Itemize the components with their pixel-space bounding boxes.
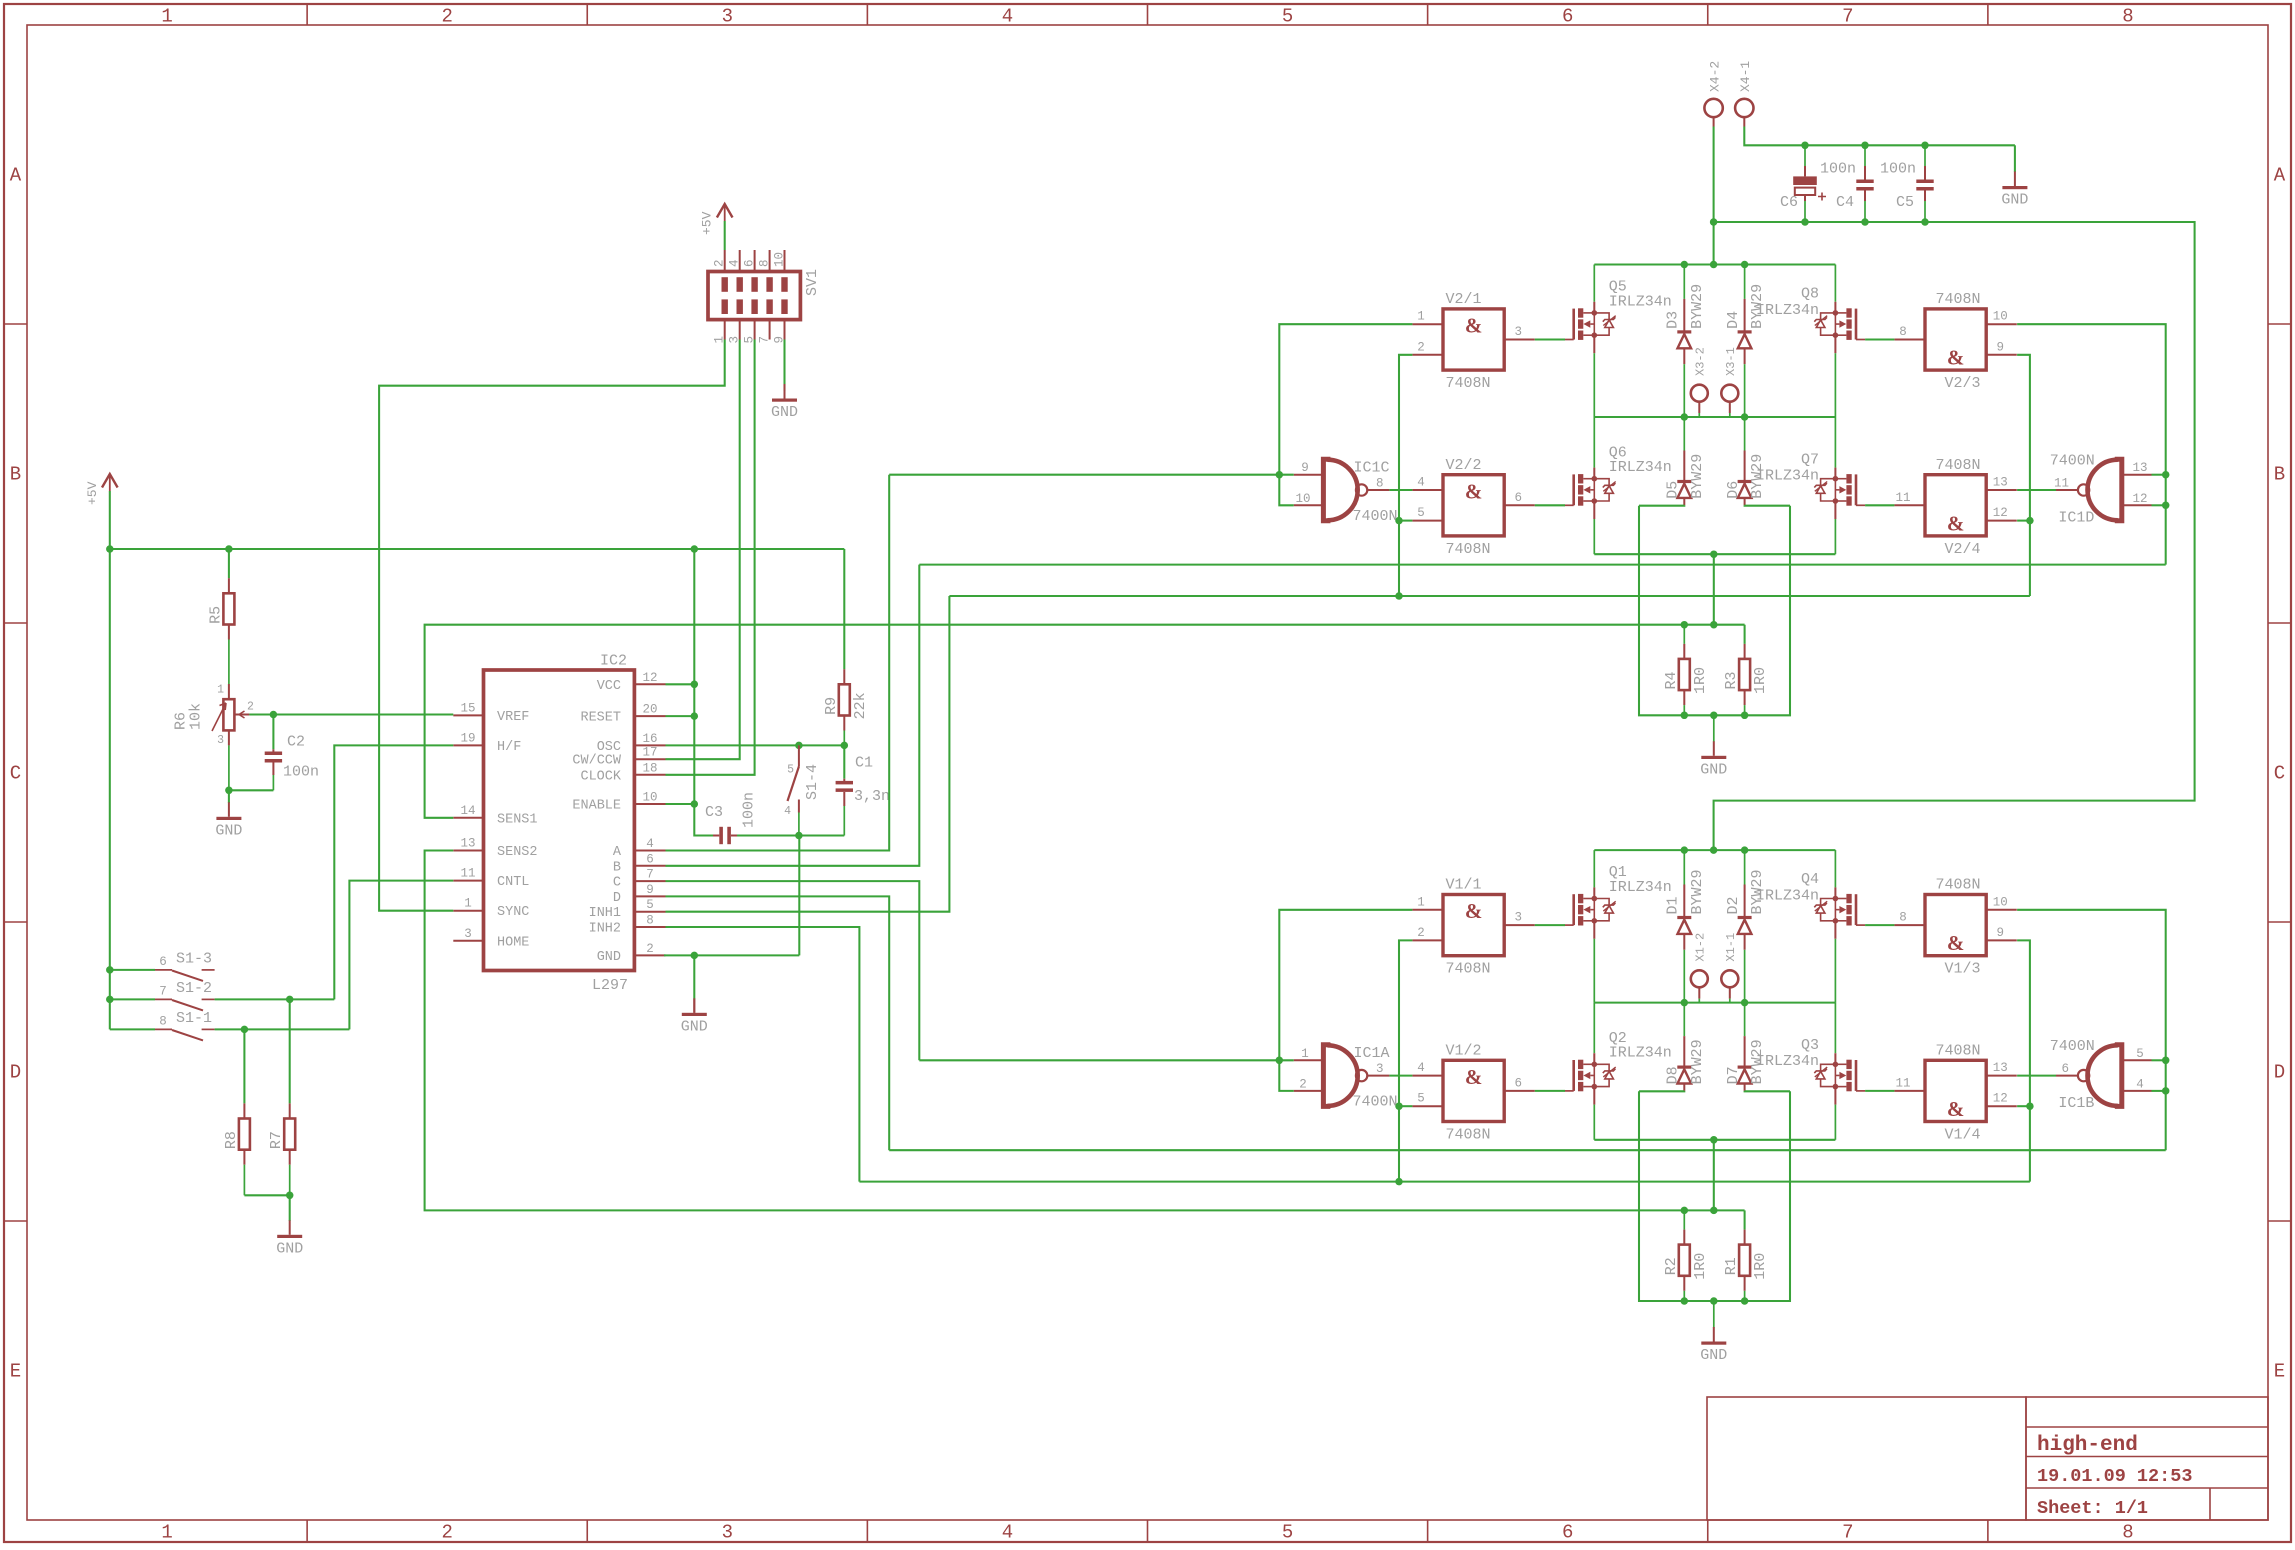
wire C2/R6 to ground xyxy=(229,789,274,791)
resistor R7 xyxy=(289,999,291,1103)
wire right gate pin9 to INH bus xyxy=(2017,940,2030,1181)
svg-text:D: D xyxy=(613,891,621,906)
svg-text:100n: 100n xyxy=(1880,161,1916,178)
svg-text:L297: L297 xyxy=(592,977,628,994)
svg-text:100n: 100n xyxy=(1820,161,1856,178)
wire bus to first gate pin 1 xyxy=(1279,910,1412,1061)
wire net C xyxy=(666,881,920,1060)
wire bridge bottom rail xyxy=(1594,1139,1835,1141)
svg-text:IRLZ34n: IRLZ34n xyxy=(1609,1045,1672,1062)
power +5V (SV1) xyxy=(717,204,733,218)
diode D7 BYW29 xyxy=(1744,1003,1746,1037)
switch S1-4 xyxy=(798,745,800,766)
connector pad X1-1 xyxy=(1721,970,1738,987)
wire B/D bus xyxy=(919,564,2165,566)
svg-text:&: & xyxy=(1947,931,1965,955)
resistor R4 1R0 xyxy=(1683,625,1685,644)
svg-text:7400N: 7400N xyxy=(2050,452,2095,469)
svg-text:V2/2: V2/2 xyxy=(1446,457,1482,474)
AND gate V1/1 7408N xyxy=(1443,895,1504,956)
resistor R9 22k xyxy=(843,549,845,669)
title block xyxy=(1707,1397,2268,1520)
svg-text:S1-1: S1-1 xyxy=(176,1010,212,1027)
IC IC2 L297 xyxy=(484,670,635,971)
capacitor C5 100n xyxy=(1924,145,1926,166)
wire SENS1 to sense bus xyxy=(425,625,1745,818)
svg-text:1: 1 xyxy=(1301,1047,1309,1061)
wire INH bus xyxy=(859,1181,2030,1183)
svg-text:9: 9 xyxy=(1996,926,2004,940)
svg-text:7408N: 7408N xyxy=(1446,961,1491,978)
svg-text:1: 1 xyxy=(217,684,224,697)
wire gate output to right top transistor xyxy=(1865,924,1894,926)
SV1 pin pads column 3 xyxy=(751,277,757,292)
svg-text:S1-2: S1-2 xyxy=(176,980,212,997)
wire net INH1 xyxy=(666,596,950,912)
svg-text:SENS1: SENS1 xyxy=(497,812,538,827)
junction dots mid rail xyxy=(1681,413,1689,421)
svg-text:V1/4: V1/4 xyxy=(1945,1126,1981,1143)
svg-text:11: 11 xyxy=(1895,491,1910,505)
wire bridge mid rail xyxy=(1594,1002,1835,1004)
svg-text:GND: GND xyxy=(276,1240,303,1257)
svg-text:4: 4 xyxy=(784,805,791,818)
svg-text:8: 8 xyxy=(2122,6,2133,28)
svg-text:R8: R8 xyxy=(223,1131,240,1149)
IC2 pin 1 SYNC xyxy=(453,910,483,912)
wire right gate pin10 to bus xyxy=(2017,324,2166,564)
transistor Q1 IRLZ34n xyxy=(1593,850,1595,887)
svg-text:4: 4 xyxy=(1002,6,1013,28)
svg-text:IC1B: IC1B xyxy=(2058,1095,2094,1112)
SV1 pin pads column 1 xyxy=(722,277,728,292)
svg-text:V1/3: V1/3 xyxy=(1945,961,1981,978)
svg-text:high-end: high-end xyxy=(2037,1434,2138,1457)
junction INH bus xyxy=(1395,592,1403,600)
svg-text:B: B xyxy=(10,464,21,486)
ground GND (capacitors) xyxy=(2014,145,2016,172)
svg-text:7408N: 7408N xyxy=(1936,877,1981,894)
junction right gate pin12 xyxy=(2026,1102,2034,1110)
junction inverter bus xyxy=(1276,471,1284,479)
svg-text:GND: GND xyxy=(1700,1347,1727,1364)
resistor R2 1R0 xyxy=(1683,1210,1685,1229)
svg-text:8: 8 xyxy=(758,259,772,267)
svg-text:6: 6 xyxy=(1514,491,1522,505)
svg-text:2: 2 xyxy=(247,701,254,714)
svg-text:7400N: 7400N xyxy=(2050,1038,2095,1055)
SV1 pin pads column 4 xyxy=(766,277,772,292)
svg-text:C5: C5 xyxy=(1896,194,1914,211)
junction dots sense rails xyxy=(1681,621,1689,629)
wire S1-2 to H/F net xyxy=(215,998,335,1000)
wire inverter inputs xyxy=(2152,474,2166,476)
svg-text:X4-2: X4-2 xyxy=(1707,61,1722,92)
transistor Q6 IRLZ34n xyxy=(1593,417,1595,468)
svg-text:4: 4 xyxy=(1417,1061,1425,1075)
svg-text:INH2: INH2 xyxy=(589,922,621,937)
svg-text:Q8: Q8 xyxy=(1801,286,1819,303)
svg-text:11: 11 xyxy=(2054,477,2069,491)
svg-text:D3: D3 xyxy=(1665,311,1682,329)
junction dots inverter IC1D/IC1B inputs xyxy=(2162,1057,2170,1065)
svg-text:3: 3 xyxy=(217,734,224,747)
IC2 pin 8 INH2 xyxy=(634,926,665,928)
junction dots sense rails xyxy=(1681,1207,1689,1215)
svg-text:13: 13 xyxy=(1993,1061,2008,1075)
AND gate V2/2 7408N xyxy=(1443,475,1504,536)
switch S1-1 xyxy=(110,1028,155,1030)
svg-text:C: C xyxy=(613,876,621,891)
junction RESET xyxy=(691,712,699,720)
svg-text:D6: D6 xyxy=(1725,481,1742,499)
svg-text:100n: 100n xyxy=(283,764,319,781)
wire VREF line xyxy=(273,713,453,715)
diode D5 BYW29 xyxy=(1683,417,1685,451)
svg-text:13: 13 xyxy=(2132,461,2147,475)
svg-text:11: 11 xyxy=(1895,1076,1910,1090)
capacitor C2 100n xyxy=(272,715,274,750)
svg-text:9: 9 xyxy=(1301,461,1309,475)
junction VCC xyxy=(691,681,699,689)
svg-text:&: & xyxy=(1947,1097,1965,1121)
svg-text:X1-1: X1-1 xyxy=(1724,933,1738,962)
wire R6 wiper to VREF xyxy=(235,714,249,716)
svg-text:SV1: SV1 xyxy=(804,269,821,296)
svg-text:2: 2 xyxy=(1299,1077,1307,1091)
AND gate V1/2 7408N xyxy=(1443,1060,1504,1121)
SV1 pin 7 stub xyxy=(769,320,771,340)
svg-text:IRLZ34n: IRLZ34n xyxy=(1609,879,1672,896)
wire gate output to left top transistor xyxy=(1535,924,1565,926)
svg-text:Sheet: 1/1: Sheet: 1/1 xyxy=(2037,1498,2148,1519)
svg-text:BYW29: BYW29 xyxy=(1749,284,1766,329)
diode D8 BYW29 xyxy=(1683,1003,1685,1037)
capacitor C4 100n xyxy=(1864,145,1866,166)
IC2 pin 14 SENS1 xyxy=(453,817,483,819)
wire INH bus xyxy=(949,595,2030,597)
svg-text:BYW29: BYW29 xyxy=(1749,1039,1766,1084)
wire net INH2 xyxy=(666,927,860,1182)
svg-text:7: 7 xyxy=(758,336,772,344)
svg-text:C: C xyxy=(10,763,21,785)
wire net A xyxy=(666,475,890,851)
svg-text:+5V: +5V xyxy=(85,481,100,505)
wire +5V down to switches xyxy=(109,549,111,1029)
svg-text:CLOCK: CLOCK xyxy=(580,769,621,784)
svg-text:A: A xyxy=(613,845,622,860)
svg-text:7400N: 7400N xyxy=(1353,508,1398,525)
ground GND (sense resistors) xyxy=(1713,1301,1715,1328)
svg-text:3: 3 xyxy=(1514,325,1522,339)
svg-text:V2/1: V2/1 xyxy=(1446,291,1482,308)
svg-text:12: 12 xyxy=(1993,1092,2008,1106)
wire gate output to left bottom transistor xyxy=(1535,1090,1565,1092)
IC2 pin 13 SENS2 xyxy=(453,850,483,852)
wire D5 anode to sense rail xyxy=(1639,504,1684,506)
wire H/F riser xyxy=(334,745,453,999)
resistor R3 1R0 xyxy=(1744,625,1746,644)
SV1 pin 3 stub xyxy=(739,320,741,340)
svg-text:CW/CCW: CW/CCW xyxy=(572,754,622,769)
svg-text:12: 12 xyxy=(1993,506,2008,520)
junction dots top rail xyxy=(1681,261,1689,269)
svg-text:Q4: Q4 xyxy=(1801,871,1819,888)
svg-text:D: D xyxy=(10,1062,21,1084)
wire sense bottom rail xyxy=(1639,506,1790,716)
svg-text:S1-4: S1-4 xyxy=(804,764,821,800)
svg-text:6: 6 xyxy=(1562,6,1573,28)
wire SV1 pin5 to CLOCK xyxy=(666,340,755,775)
svg-text:6: 6 xyxy=(743,259,757,267)
wire GND net of IC2 xyxy=(664,954,799,956)
wire CNTL riser xyxy=(349,881,453,1030)
junction R6 wiper/C2 xyxy=(270,711,278,719)
svg-text:4: 4 xyxy=(728,259,742,267)
SV1 pin pads column 2 xyxy=(737,277,743,292)
svg-text:GND: GND xyxy=(681,1018,708,1035)
svg-text:7: 7 xyxy=(159,984,167,998)
svg-text:SENS2: SENS2 xyxy=(497,845,538,860)
wire S1-1 to CNTL net xyxy=(215,1028,350,1030)
junction INH bus xyxy=(1395,1178,1403,1186)
svg-text:1R0: 1R0 xyxy=(1692,667,1709,694)
svg-text:20: 20 xyxy=(642,703,657,717)
svg-text:10: 10 xyxy=(773,252,787,267)
IC2 pin 9 D xyxy=(634,895,665,897)
svg-text:S1-3: S1-3 xyxy=(176,950,212,967)
junction IC2 GND xyxy=(691,952,699,960)
wire R8/R7 bottoms xyxy=(244,1194,289,1196)
svg-text:R1: R1 xyxy=(1723,1257,1740,1275)
junction S1-1/R8 xyxy=(241,1026,249,1034)
SV1 pin 10 stub xyxy=(784,250,786,272)
svg-text:IRLZ34n: IRLZ34n xyxy=(1609,459,1672,476)
wire inverter inputs xyxy=(2152,1059,2166,1061)
wire SENS2 to lower sense bus xyxy=(425,851,1745,1211)
capacitor C6 (polarized) xyxy=(1804,145,1806,166)
wire inverter paralleled input xyxy=(1279,1060,1293,1091)
junction R7 bottom xyxy=(286,1192,294,1200)
svg-text:7: 7 xyxy=(646,868,654,882)
svg-text:D2: D2 xyxy=(1725,896,1742,914)
SV1 pin 9 stub xyxy=(784,320,786,340)
wire net D xyxy=(666,896,890,1150)
resistor R5 xyxy=(228,549,230,578)
wire inverter output to right gate pin13 xyxy=(2017,489,2056,491)
svg-text:8: 8 xyxy=(159,1014,167,1028)
svg-text:C3: C3 xyxy=(705,804,723,821)
svg-text:V1/1: V1/1 xyxy=(1446,877,1482,894)
svg-text:13: 13 xyxy=(1993,476,2008,490)
svg-text:1: 1 xyxy=(161,6,172,28)
svg-text:OSC: OSC xyxy=(597,740,621,755)
svg-text:X3-1: X3-1 xyxy=(1724,347,1738,376)
svg-text:VREF: VREF xyxy=(497,710,529,725)
svg-text:5: 5 xyxy=(1282,1522,1293,1544)
SV1 pin 8 stub xyxy=(769,250,771,272)
svg-text:8: 8 xyxy=(646,914,654,928)
svg-text:1: 1 xyxy=(1417,895,1425,909)
junction dots top rail xyxy=(1681,846,1689,854)
svg-text:X3-2: X3-2 xyxy=(1694,347,1708,376)
svg-text:C4: C4 xyxy=(1836,194,1854,211)
svg-text:D1: D1 xyxy=(1665,896,1682,914)
svg-text:IRLZ34n: IRLZ34n xyxy=(1609,293,1672,310)
svg-text:7: 7 xyxy=(1842,6,1853,28)
AND gate V1/3 7408N xyxy=(1925,895,1986,956)
wire SV1 pin1 to SYNC xyxy=(379,340,725,911)
IC2 pin 6 B xyxy=(634,865,665,867)
svg-text:7408N: 7408N xyxy=(1936,291,1981,308)
svg-text:16: 16 xyxy=(642,732,657,746)
svg-text:1: 1 xyxy=(161,1522,172,1544)
wire inverter input bus xyxy=(919,1059,1293,1061)
connector pad X1-2 xyxy=(1691,970,1708,987)
wire X4-1 to GND rail xyxy=(1743,117,1745,126)
wire OSC line xyxy=(666,744,845,746)
svg-text:R5: R5 xyxy=(207,606,224,624)
ground GND (sense resistors) xyxy=(1713,715,1715,742)
svg-text:R2: R2 xyxy=(1663,1257,1680,1275)
svg-text:7408N: 7408N xyxy=(1446,1126,1491,1143)
SV1 pin pads column 5 xyxy=(781,277,787,292)
svg-text:5: 5 xyxy=(2136,1047,2144,1061)
connector pad X4-1 xyxy=(1735,99,1753,117)
wire sense bottom rail xyxy=(1639,1091,1790,1301)
svg-text:8: 8 xyxy=(1899,911,1907,925)
wire bridge bottom rail xyxy=(1594,553,1835,555)
transistor Q2 IRLZ34n xyxy=(1593,1003,1595,1054)
svg-text:1R0: 1R0 xyxy=(1752,667,1769,694)
svg-text:HOME: HOME xyxy=(497,935,529,950)
svg-text:4: 4 xyxy=(2136,1077,2144,1091)
transistor Q3 IRLZ34n xyxy=(1834,1003,1836,1054)
svg-text:Q3: Q3 xyxy=(1801,1037,1819,1054)
junction X4-2 rail xyxy=(1710,218,1718,226)
svg-text:A: A xyxy=(2274,165,2286,187)
svg-text:C2: C2 xyxy=(287,734,305,751)
diode D6 BYW29 xyxy=(1744,417,1746,451)
connector pad X3-1 xyxy=(1721,385,1738,402)
svg-text:11: 11 xyxy=(460,867,475,881)
svg-text:X1-2: X1-2 xyxy=(1694,933,1708,962)
ground GND (IC2) xyxy=(693,955,695,1000)
svg-text:7: 7 xyxy=(1842,1522,1853,1544)
svg-text:2: 2 xyxy=(1417,340,1425,354)
svg-text:Q7: Q7 xyxy=(1801,451,1819,468)
svg-text:6: 6 xyxy=(1562,1522,1573,1544)
svg-text:3: 3 xyxy=(1514,911,1522,925)
svg-text:E: E xyxy=(2274,1361,2285,1383)
wire right gate pin10 to bus xyxy=(2017,910,2166,1150)
svg-text:5: 5 xyxy=(787,764,794,777)
junction dot bottom rail xyxy=(1710,550,1718,558)
wire inverter input bus xyxy=(889,474,1293,476)
svg-text:19: 19 xyxy=(460,731,475,745)
wire gate output to left top transistor xyxy=(1535,338,1565,340)
IC2 pin 15 VREF xyxy=(453,714,483,716)
wire D7 anode to sense rail xyxy=(1745,1090,1790,1092)
switch S1-2 xyxy=(110,998,155,1000)
wire inverter output to gate pin 4 xyxy=(1389,1075,1412,1077)
wire gate pin2/pin5 tie xyxy=(1399,355,1412,596)
svg-text:SYNC: SYNC xyxy=(497,905,529,920)
svg-text:&: & xyxy=(1465,479,1483,503)
svg-text:GND: GND xyxy=(2001,192,2028,209)
svg-text:13: 13 xyxy=(460,837,475,851)
junction S1-4 top xyxy=(795,742,803,750)
transistor Q8 IRLZ34n xyxy=(1834,265,1836,302)
svg-text:1: 1 xyxy=(1417,310,1425,324)
svg-text:IC1D: IC1D xyxy=(2058,509,2094,526)
svg-text:2: 2 xyxy=(713,259,727,267)
svg-text:V2/3: V2/3 xyxy=(1945,375,1981,392)
svg-text:3,3n: 3,3n xyxy=(854,788,890,805)
IC2 pin 2 GND xyxy=(634,954,665,956)
svg-text:5: 5 xyxy=(646,898,654,912)
wire supply rail to bridges xyxy=(1714,222,2195,850)
SV1 pin 1 stub xyxy=(724,320,726,340)
NAND gate IC1A 7400N xyxy=(1323,1045,1330,1107)
AND gate V1/4 7408N xyxy=(1925,1060,1986,1121)
junction dot bottom rail xyxy=(1710,1136,1718,1144)
transistor Q4 IRLZ34n xyxy=(1834,850,1836,887)
IC2 pin 20 RESET xyxy=(634,715,665,717)
svg-text:100n: 100n xyxy=(741,792,758,828)
svg-text:ENABLE: ENABLE xyxy=(572,799,621,814)
IC2 pin 18 CLOCK xyxy=(634,774,665,776)
diode D4 BYW29 xyxy=(1744,265,1746,299)
wire right gate pin9 to INH bus xyxy=(2017,355,2030,596)
svg-text:BYW29: BYW29 xyxy=(1749,454,1766,499)
svg-text:10: 10 xyxy=(1993,895,2008,909)
junction C3/S1-4 bottom xyxy=(795,832,803,840)
svg-text:&: & xyxy=(1465,899,1483,923)
IC2 pin 16 OSC xyxy=(634,744,665,746)
junction pin5 tie xyxy=(1395,1102,1403,1110)
svg-text:5: 5 xyxy=(1417,506,1425,520)
SV1 pin 5 stub xyxy=(754,320,756,340)
svg-text:B: B xyxy=(613,860,621,875)
svg-text:5: 5 xyxy=(1282,6,1293,28)
svg-text:B: B xyxy=(2274,464,2285,486)
diode D3 BYW29 xyxy=(1683,265,1685,299)
wire SV1 pin3 to CW/CCW xyxy=(666,340,740,760)
svg-text:&: & xyxy=(1465,314,1483,338)
svg-text:IC2: IC2 xyxy=(600,653,627,670)
AND gate V2/3 7408N xyxy=(1925,309,1986,370)
wire D8 anode to sense rail xyxy=(1639,1090,1684,1092)
wire bridge top rail xyxy=(1594,263,1835,265)
svg-text:10: 10 xyxy=(642,791,657,805)
NAND gate IC1D 7400N xyxy=(2115,459,2122,521)
junction dots inverter IC1D/IC1B inputs xyxy=(2162,471,2170,479)
transistor Q7 IRLZ34n xyxy=(1834,417,1836,468)
svg-text:&: & xyxy=(1947,346,1965,370)
junction dots mid rail xyxy=(1681,999,1689,1007)
svg-text:GND: GND xyxy=(597,950,621,965)
svg-text:4: 4 xyxy=(1002,1522,1013,1544)
connector pad X3-2 xyxy=(1691,385,1708,402)
wire D6 anode to sense rail xyxy=(1745,504,1790,506)
svg-text:INH1: INH1 xyxy=(589,906,621,921)
wire gate pin2/pin5 tie xyxy=(1399,940,1412,1181)
svg-text:6: 6 xyxy=(1514,1076,1522,1090)
svg-text:6: 6 xyxy=(2061,1062,2069,1076)
diode D2 BYW29 xyxy=(1744,850,1746,884)
ground GND (R7/R8) xyxy=(289,1195,291,1221)
